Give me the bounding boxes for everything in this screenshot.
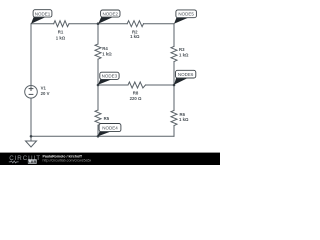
wire top segment R2 to NODE5 corner [144, 23, 175, 25]
svg-text:220 Ω: 220 Ω [130, 96, 142, 101]
svg-text:20 V: 20 V [41, 91, 50, 96]
wire right column (R3 to NODE6) [173, 62, 175, 85]
svg-text:1 kΩ: 1 kΩ [102, 51, 112, 56]
junction dot NODE3 [97, 84, 100, 87]
wire right column upper (NODE5 to R3) [173, 24, 175, 47]
footer credit text [43, 155, 92, 163]
label R8 value [130, 91, 142, 101]
junction dot ground [30, 135, 33, 138]
svg-text:1 kΩ: 1 kΩ [56, 36, 66, 41]
svg-text:R1: R1 [58, 29, 64, 34]
node NODE5 flag [174, 10, 196, 24]
ground symbol [26, 136, 37, 147]
voltage source V1 circle [25, 86, 38, 99]
svg-text:1 kΩ: 1 kΩ [130, 34, 140, 39]
node NODE4 flag [98, 124, 121, 137]
node NODE1 flag [31, 10, 52, 24]
svg-text:1 kΩ: 1 kΩ [179, 52, 189, 57]
resistor R3 [171, 46, 177, 61]
wire top segment R1 to R2 through NODE2 [69, 23, 127, 25]
wire middle column lower (R5 to NODE4) [97, 125, 99, 136]
resistor R2 [127, 21, 143, 27]
resistor R8 [128, 82, 146, 88]
svg-text:R5: R5 [104, 116, 110, 121]
label R2 value [130, 29, 140, 39]
wire left column upper (NODE1 down to V1) [30, 24, 32, 86]
svg-text:1 kΩ: 1 kΩ [179, 117, 189, 122]
junction dot NODE6 [173, 84, 176, 87]
label R3 value [179, 47, 189, 57]
wire middle row (NODE3 to R8) [98, 84, 128, 86]
V1 plus polarity mark [29, 86, 34, 91]
svg-text:NODE5: NODE5 [178, 12, 194, 17]
svg-text:NODE1: NODE1 [35, 11, 51, 16]
svg-text:NODE3: NODE3 [102, 74, 118, 79]
label R1 value [56, 29, 66, 40]
wire bottom rail [31, 135, 174, 137]
svg-text:V1: V1 [41, 86, 47, 91]
svg-text:LAB: LAB [28, 159, 36, 164]
svg-text:NODE2: NODE2 [103, 11, 119, 16]
node NODE2 flag [98, 10, 120, 24]
wire left column lower (V1 to bottom) [30, 98, 32, 136]
footer bar [0, 153, 220, 165]
V1 minus polarity mark [29, 93, 34, 95]
resistor R4 [95, 44, 101, 59]
label R6 value [179, 112, 189, 122]
label R4 value [102, 46, 112, 56]
node NODE3 flag [98, 72, 119, 85]
node NODE6 flag [174, 70, 196, 84]
junction dot NODE4 [97, 135, 100, 138]
wire middle column (NODE3 to R5) [97, 85, 99, 110]
wire top segment NODE1 to R1 [31, 23, 54, 25]
CircuitLab logo [9, 155, 41, 164]
resistor R5 [95, 110, 101, 125]
wire middle column (R4 to NODE3) [97, 59, 99, 85]
svg-text:NODE4: NODE4 [102, 126, 118, 131]
wire right column lower (R6 to bottom) [173, 126, 175, 137]
wire middle column upper (NODE2 to R4) [97, 24, 99, 44]
label R5 value [104, 116, 110, 121]
wire middle row (R8 to NODE6) [146, 84, 175, 86]
wire right column (NODE6 to R6) [173, 85, 175, 110]
svg-text:NODE6: NODE6 [178, 72, 194, 77]
svg-text:http://circuitlab.com/c/cws5a5: http://circuitlab.com/c/cws5a5x [43, 159, 92, 163]
junction dot NODE2 [97, 22, 100, 25]
label V1 value [41, 86, 50, 97]
resistor R6 [171, 110, 177, 125]
resistor R1 [54, 21, 69, 27]
